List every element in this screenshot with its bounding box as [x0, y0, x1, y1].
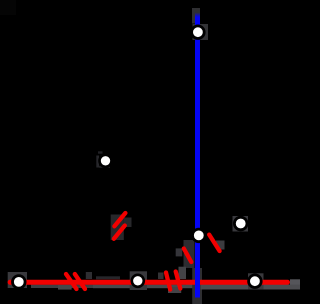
break mark B right-top patch	[179, 267, 187, 279]
break mark B stroke 2	[176, 272, 181, 289]
blue vertical line	[195, 13, 200, 298]
break mark B stroke 1	[166, 273, 170, 290]
break mark A upper-right patch	[86, 272, 92, 279]
blue line bottom terminus gray column	[192, 268, 202, 304]
junction diagonal red stroke left	[184, 249, 192, 263]
junction right gray patch	[216, 241, 225, 250]
gray band below red line right of blue	[201, 285, 301, 290]
node B faint label marks	[96, 151, 110, 168]
node A circle	[192, 26, 205, 39]
gray stub left of blue at red line	[186, 284, 193, 288]
node E label box	[8, 272, 27, 288]
break mark B bottom patch	[168, 287, 181, 293]
node A label box	[193, 24, 209, 40]
node G label box	[248, 273, 264, 289]
corner patch	[0, 0, 16, 15]
break mark A stroke 2	[75, 274, 85, 289]
break mark B left-top patch	[158, 273, 164, 280]
node D circle	[234, 217, 247, 230]
break mark C gray backdrop	[111, 215, 132, 241]
node G circle	[249, 275, 262, 288]
gray band above red line left of node F	[96, 276, 120, 279]
break mark C stroke 1	[114, 213, 125, 226]
node F circle	[132, 275, 144, 287]
gray band below red line	[31, 285, 93, 288]
break mark A lower-left patch	[58, 285, 72, 290]
node D label box	[233, 216, 249, 232]
gray column left of blue line	[184, 240, 195, 268]
gray continuation of red line at right edge	[290, 279, 300, 284]
node B circle	[100, 155, 112, 167]
node F label box	[130, 271, 147, 290]
break mark C stroke 2	[114, 226, 125, 239]
junction left gray patch	[176, 248, 183, 256]
node C junction circle	[193, 229, 206, 242]
node E circle	[12, 276, 25, 289]
blue line top terminus gray box	[192, 8, 200, 24]
junction diagonal red stroke right	[209, 235, 219, 251]
red horizontal line	[8, 280, 290, 285]
break mark A stroke 1	[66, 274, 77, 289]
